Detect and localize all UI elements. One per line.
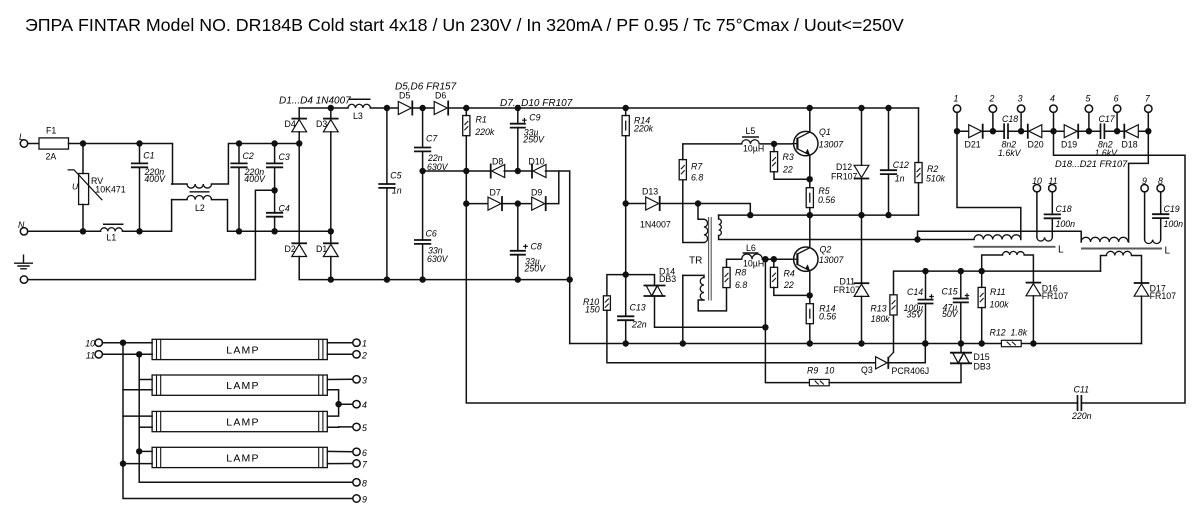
node D13 left bbox=[623, 200, 629, 206]
svg-text:1n: 1n bbox=[895, 174, 905, 184]
wire bus B bbox=[139, 354, 353, 482]
svg-text:3: 3 bbox=[1018, 94, 1023, 104]
svg-text:9: 9 bbox=[1142, 176, 1147, 186]
wire C9 bbox=[517, 108, 519, 124]
diode D11 bbox=[854, 283, 870, 296]
svg-text:510k: 510k bbox=[926, 173, 946, 183]
svg-text:8: 8 bbox=[1158, 176, 1163, 186]
wire terminal 3 bbox=[1020, 112, 1022, 131]
terminal 11 lamp side bbox=[95, 351, 102, 358]
svg-text:150: 150 bbox=[585, 305, 600, 315]
node C12-midpoint bbox=[885, 212, 891, 218]
wire lamp3 to t4 bbox=[327, 404, 338, 416]
wire TR lower winding to rail bbox=[682, 275, 684, 343]
svg-text:D4: D4 bbox=[285, 119, 296, 129]
wire bus B lamp3 bbox=[139, 426, 152, 428]
wire D3 string bbox=[330, 108, 332, 119]
capacitor C5 bbox=[378, 184, 395, 188]
diac D14 bbox=[644, 286, 666, 297]
svg-text:R13: R13 bbox=[870, 303, 886, 313]
node C7-C6 / D8 row left bbox=[419, 168, 425, 174]
diode D12 bbox=[854, 165, 870, 178]
node R3-emitter bbox=[807, 176, 813, 182]
wire lamp2 to t4 bbox=[327, 390, 338, 405]
wire R1 string bbox=[465, 108, 467, 116]
diode D17 bbox=[1134, 283, 1150, 296]
svg-text:220k: 220k bbox=[633, 123, 654, 133]
wire D14 bottom to gate line bbox=[655, 296, 766, 327]
diode D4 bbox=[291, 119, 307, 132]
svg-text:C6: C6 bbox=[426, 228, 437, 238]
inductor L1 bbox=[101, 228, 123, 232]
svg-text:6.8: 6.8 bbox=[735, 280, 747, 290]
wire bus B lamp4 bbox=[139, 450, 152, 452]
wire C3 bbox=[274, 144, 276, 164]
node terminal 2 bbox=[990, 128, 996, 134]
wire D17 bottom bbox=[1141, 296, 1143, 343]
node C3 top bbox=[271, 140, 277, 146]
node t10 branch bbox=[120, 340, 126, 346]
wire D12 bbox=[861, 108, 863, 165]
wire D14 top bbox=[626, 275, 655, 286]
wire R10 bottom to Q3 line bbox=[607, 310, 876, 363]
svg-text:D15: D15 bbox=[974, 352, 990, 362]
resistor R9 bbox=[809, 379, 829, 385]
svg-text:TR: TR bbox=[689, 256, 702, 267]
capacitor C1 bbox=[131, 163, 148, 167]
wire D4 to D2 bbox=[298, 144, 300, 244]
svg-text:C8: C8 bbox=[531, 242, 542, 252]
transformer TR lower winding bbox=[683, 275, 704, 277]
node R1-D8row bbox=[463, 168, 469, 174]
wire bus A lamp3 bbox=[123, 415, 152, 417]
inductor L6 bbox=[742, 254, 763, 259]
terminal 2 bbox=[989, 105, 996, 112]
node Q3 cathode-rail bbox=[922, 340, 928, 346]
terminal 7 lamp side bbox=[353, 460, 360, 467]
wire bus B lamp2 bbox=[139, 379, 152, 381]
svg-text:630V: 630V bbox=[427, 254, 449, 264]
wire bus A bbox=[123, 343, 353, 499]
svg-text:C9: C9 bbox=[529, 112, 540, 122]
transformer TR core bbox=[709, 217, 712, 301]
svg-text:3: 3 bbox=[362, 375, 367, 385]
resistor R4 bbox=[770, 267, 777, 287]
svg-text:0.56: 0.56 bbox=[819, 311, 836, 321]
capacitor C2 bbox=[230, 163, 247, 167]
wire R9 feed vertical bbox=[765, 259, 809, 382]
node N-RV bbox=[80, 228, 86, 234]
node terminal 6 bbox=[1114, 128, 1120, 134]
wire rail D5-D6 bbox=[413, 107, 435, 109]
wire C4 bbox=[274, 190, 276, 213]
svg-text:DB3: DB3 bbox=[974, 362, 991, 372]
diode D7 bbox=[488, 196, 502, 211]
svg-text:D19: D19 bbox=[1061, 140, 1077, 150]
node N-C1 bbox=[136, 228, 142, 234]
svg-text:U: U bbox=[72, 182, 79, 192]
wire lamp1 to t1 bbox=[327, 342, 353, 344]
svg-text:6.8: 6.8 bbox=[691, 173, 703, 183]
node R1-D7row bbox=[463, 200, 469, 206]
wire L input bbox=[28, 143, 39, 145]
svg-text:D18: D18 bbox=[1122, 140, 1138, 150]
node D3 top bbox=[328, 105, 334, 111]
svg-text:R1: R1 bbox=[476, 115, 487, 125]
node C2 bottom bbox=[236, 228, 242, 234]
wire D11 bbox=[861, 215, 863, 283]
ground symbol bbox=[14, 255, 33, 269]
node t4 junction bbox=[335, 401, 341, 407]
svg-text:10: 10 bbox=[85, 339, 95, 349]
svg-text:L: L bbox=[1058, 245, 1064, 256]
svg-text:D9: D9 bbox=[531, 188, 542, 198]
capacitor C12 bbox=[880, 170, 897, 174]
diode D18 bbox=[1124, 124, 1138, 139]
node Q2 base-R4 bbox=[771, 256, 777, 262]
svg-text:N: N bbox=[18, 220, 25, 230]
svg-text:250V: 250V bbox=[524, 264, 547, 274]
terminal 5 lamp side bbox=[353, 423, 360, 430]
svg-text:LAMP: LAMP bbox=[226, 380, 259, 392]
svg-text:D2: D2 bbox=[285, 244, 296, 254]
wire D9 right riser bbox=[546, 171, 559, 204]
svg-text:11: 11 bbox=[1048, 176, 1057, 186]
svg-text:D18...D21 FR107: D18...D21 FR107 bbox=[1055, 159, 1128, 169]
lamp 2 bbox=[152, 375, 327, 395]
svg-text:22: 22 bbox=[783, 280, 794, 290]
svg-text:LAMP: LAMP bbox=[226, 453, 259, 465]
svg-text:13007: 13007 bbox=[819, 139, 845, 149]
diac D15 bbox=[950, 353, 972, 364]
node D13-midpoint bbox=[747, 212, 753, 218]
svg-text:L1: L1 bbox=[107, 233, 117, 243]
diode D10 bbox=[532, 164, 546, 179]
node C3-C4 midpoint bbox=[271, 187, 277, 193]
fuse F1 bbox=[39, 138, 69, 149]
wire D4 string bbox=[298, 108, 300, 119]
svg-text:C4: C4 bbox=[279, 204, 290, 214]
wire C15 bbox=[960, 271, 962, 298]
svg-text:C5: C5 bbox=[390, 170, 401, 180]
node TR-rail bbox=[680, 340, 686, 346]
node D3-AC2 bbox=[328, 228, 334, 234]
svg-text:2: 2 bbox=[361, 350, 367, 360]
node R12-D16 bbox=[1030, 340, 1036, 346]
heater winding right bbox=[1101, 256, 1107, 272]
capacitor C13 bbox=[617, 316, 634, 320]
wire R13 top to DC node bbox=[894, 271, 1101, 295]
svg-text:ЭПРА FINTAR Model NO. DR184B C: ЭПРА FINTAR Model NO. DR184B Cold start … bbox=[25, 15, 904, 35]
wire C11 loop from D7 row bbox=[466, 204, 1077, 403]
terminal 3 bbox=[1017, 105, 1024, 112]
wire lamp2 to t3 bbox=[327, 378, 353, 380]
diode D5 bbox=[398, 101, 412, 116]
capacitor C8 bbox=[510, 251, 526, 255]
node R11-rail bbox=[979, 340, 985, 346]
svg-text:LAMP: LAMP bbox=[226, 417, 259, 429]
svg-text:C18: C18 bbox=[1056, 204, 1072, 214]
svg-text:C14: C14 bbox=[907, 287, 923, 297]
wire L6 left to R8 bbox=[727, 259, 742, 267]
svg-text:250V: 250V bbox=[522, 134, 545, 144]
svg-text:D7: D7 bbox=[490, 188, 501, 198]
node D4-AC1 bbox=[296, 140, 302, 146]
svg-text:D7...D10 FR107: D7...D10 FR107 bbox=[500, 98, 573, 109]
svg-text:1.8k: 1.8k bbox=[1011, 327, 1028, 337]
wire R7 top / L5 line bbox=[683, 144, 742, 160]
svg-text:10: 10 bbox=[825, 366, 835, 376]
node terminal 7 bbox=[1145, 128, 1151, 134]
terminal 4 lamp side bbox=[353, 401, 360, 408]
svg-text:6: 6 bbox=[1114, 94, 1119, 104]
resistor R7 bbox=[679, 160, 686, 180]
svg-text:6: 6 bbox=[362, 448, 367, 458]
choke B core bbox=[1081, 248, 1162, 250]
svg-text:C2: C2 bbox=[243, 151, 254, 161]
wire D10 right down to DC- bbox=[546, 171, 570, 344]
wire terminal 7 to choke B bbox=[1129, 131, 1149, 242]
node C12 top bbox=[885, 105, 891, 111]
svg-text:220n: 220n bbox=[1071, 411, 1092, 421]
wire D15 top bbox=[960, 344, 962, 353]
diode D9 bbox=[532, 196, 546, 211]
svg-text:C1: C1 bbox=[143, 151, 154, 161]
node C5 top bbox=[384, 105, 390, 111]
node C8 top bbox=[515, 200, 521, 206]
diode D16 bbox=[1026, 283, 1042, 296]
wire C8 bbox=[517, 204, 519, 251]
diode D19 bbox=[1064, 124, 1078, 139]
diode D20 bbox=[1028, 124, 1042, 139]
svg-text:400V: 400V bbox=[244, 174, 266, 184]
diode D3 bbox=[323, 119, 339, 132]
wire lamp3 to t5 bbox=[327, 426, 353, 428]
node bus B lamp4 bbox=[136, 448, 142, 454]
wire lamp4 to t7 bbox=[327, 463, 353, 465]
wire C14 bbox=[925, 271, 927, 300]
transformer TR primary winding bbox=[698, 204, 704, 220]
wire lamp1 to t2 bbox=[327, 353, 353, 355]
node R5-midpoint bbox=[807, 212, 813, 218]
svg-text:D21: D21 bbox=[965, 140, 981, 150]
wire resonant riser bbox=[918, 231, 1082, 242]
wire L2 bottom right bbox=[212, 200, 331, 232]
wire C6 bottom bbox=[422, 244, 424, 280]
svg-text:D3: D3 bbox=[316, 119, 327, 129]
svg-text:9: 9 bbox=[362, 495, 367, 505]
node L-C1 bbox=[136, 140, 142, 146]
choke A core bbox=[974, 246, 1056, 248]
top rail bbox=[299, 107, 348, 109]
resistor R11 bbox=[978, 287, 985, 307]
choke A heater winding bbox=[1036, 192, 1038, 237]
node R4-emitter bbox=[807, 292, 813, 298]
terminal 9 lamp side bbox=[353, 495, 360, 502]
node D11-rail bbox=[858, 340, 864, 346]
wire C1 top bbox=[139, 144, 141, 164]
thyristor Q3 bbox=[876, 352, 894, 369]
capacitor C6 bbox=[414, 240, 431, 244]
wire terminal 7 bbox=[1147, 112, 1149, 131]
wire R5 bottom bbox=[809, 208, 811, 216]
terminal 8 lamp side bbox=[353, 479, 360, 486]
diode D1 bbox=[323, 243, 339, 256]
svg-text:FR107: FR107 bbox=[831, 172, 858, 182]
svg-text:Q3: Q3 bbox=[861, 365, 873, 375]
svg-text:100k: 100k bbox=[990, 300, 1010, 310]
node terminal 5 bbox=[1086, 128, 1092, 134]
wire D8-C9 node bbox=[504, 170, 532, 172]
wire terminal 5 bbox=[1088, 112, 1090, 131]
midpoint rail bbox=[719, 214, 919, 216]
wire terminal 1 to resonant node bbox=[957, 131, 1021, 239]
wire R10 top bbox=[607, 275, 626, 296]
wire lamp4 to t6 bbox=[327, 450, 353, 452]
choke B winding bbox=[1081, 237, 1128, 242]
terminal 5 bbox=[1085, 105, 1092, 112]
svg-text:R11: R11 bbox=[990, 287, 1006, 297]
wire RV bottom bbox=[82, 205, 84, 232]
inductor L5 bbox=[742, 140, 760, 144]
terminal 10 top bbox=[1033, 185, 1040, 192]
node terminal 3 bbox=[1018, 128, 1024, 134]
terminal 6 lamp side bbox=[353, 448, 360, 455]
resistor R8 bbox=[723, 267, 730, 287]
node C5-DC- bbox=[384, 276, 390, 282]
wire L5 to Q1 base bbox=[759, 143, 792, 145]
terminal N bbox=[20, 228, 27, 235]
svg-text:L6: L6 bbox=[746, 243, 756, 253]
diode D21 bbox=[969, 124, 983, 139]
svg-text:R3: R3 bbox=[783, 152, 794, 162]
svg-text:100n: 100n bbox=[1164, 219, 1184, 229]
wire Q3 cathode to rail bbox=[888, 344, 925, 363]
terminal L bbox=[20, 140, 27, 147]
wire terminal 1 bbox=[956, 112, 958, 131]
wire C1 bottom bbox=[139, 167, 141, 231]
diode D2 bbox=[291, 243, 307, 256]
svg-text:1N4007: 1N4007 bbox=[640, 219, 671, 229]
svg-text:DB3: DB3 bbox=[659, 274, 676, 284]
wire t11 to lamp1 bbox=[102, 353, 152, 355]
svg-text:C15: C15 bbox=[942, 287, 958, 297]
node R14-rail bbox=[807, 340, 813, 346]
node D10line-DC- bbox=[567, 276, 573, 282]
diode D8 bbox=[491, 164, 505, 179]
svg-text:100n: 100n bbox=[1056, 219, 1076, 229]
wire R9 to D15 bbox=[829, 363, 961, 382]
capacitor C18 output bbox=[1044, 214, 1061, 218]
node R11 top bbox=[979, 268, 985, 274]
wire D13 line bbox=[626, 203, 646, 205]
node terminal 1 bbox=[954, 128, 960, 134]
svg-text:1.6kV: 1.6kV bbox=[998, 148, 1022, 158]
wire bus A lamp4 bbox=[123, 463, 152, 465]
svg-text:22n: 22n bbox=[631, 320, 647, 330]
choke A winding bbox=[918, 239, 975, 241]
capacitor C18 series bbox=[1004, 123, 1008, 139]
wire terminal 2 bbox=[992, 112, 994, 131]
varistor RV bbox=[68, 170, 103, 205]
wire D7-D9 bbox=[503, 203, 532, 205]
wire PE to C3-C4 midpoint bbox=[28, 190, 275, 279]
svg-text:4: 4 bbox=[362, 400, 367, 410]
svg-text:2: 2 bbox=[988, 94, 994, 104]
svg-text:10µH: 10µH bbox=[743, 143, 764, 153]
svg-text:13007: 13007 bbox=[819, 255, 845, 265]
wire D8 row bbox=[423, 170, 491, 172]
terminal 1 lamp side bbox=[353, 339, 360, 346]
svg-text:1n: 1n bbox=[392, 185, 402, 195]
lamp 4 bbox=[152, 447, 327, 467]
svg-text:L2: L2 bbox=[195, 203, 205, 213]
wire R2 bbox=[918, 108, 920, 163]
svg-text:L5: L5 bbox=[746, 126, 756, 136]
wire rail D6 right bbox=[449, 107, 919, 109]
node R1 top bbox=[463, 105, 469, 111]
svg-text:0.56: 0.56 bbox=[818, 195, 835, 205]
svg-text:D10: D10 bbox=[529, 157, 545, 167]
terminal PE bbox=[20, 276, 27, 283]
svg-text:FR107: FR107 bbox=[1042, 291, 1069, 301]
wire t4 junction bbox=[339, 403, 353, 405]
wire rail L3-D5 bbox=[370, 107, 398, 109]
resistor R2 bbox=[915, 163, 922, 183]
heater winding left bbox=[982, 255, 1003, 271]
svg-text:C3: C3 bbox=[279, 152, 290, 162]
resistor R14 bbox=[622, 116, 629, 136]
svg-text:R9: R9 bbox=[807, 366, 818, 376]
node C13-rail bbox=[623, 340, 629, 346]
svg-text:L: L bbox=[1165, 246, 1171, 257]
transistor Q1 bbox=[792, 131, 818, 155]
wire R4 bbox=[773, 259, 775, 267]
node C6-DC- bbox=[419, 276, 425, 282]
svg-text:C12: C12 bbox=[893, 160, 909, 170]
svg-text:2A: 2A bbox=[46, 152, 57, 162]
wire terminal 6 bbox=[1116, 112, 1118, 131]
node Q1 collector bbox=[807, 105, 813, 111]
svg-text:C17: C17 bbox=[1099, 114, 1116, 124]
terminal 9 top bbox=[1141, 185, 1148, 192]
node D12 top bbox=[858, 105, 864, 111]
svg-text:R4: R4 bbox=[784, 269, 795, 279]
svg-text:C18: C18 bbox=[1002, 114, 1018, 124]
node bus A lamp4 bbox=[120, 460, 126, 466]
wire C5 bbox=[386, 108, 388, 184]
node C7 top bbox=[419, 105, 425, 111]
wire C7 bbox=[422, 108, 424, 148]
terminal 11 top bbox=[1049, 185, 1056, 192]
svg-text:C7: C7 bbox=[426, 133, 438, 143]
wire R14 string bbox=[625, 108, 627, 116]
wire N line to choke bbox=[123, 200, 172, 232]
wire C18 output bbox=[1051, 192, 1053, 215]
output bus bbox=[957, 130, 1004, 132]
terminal 6 bbox=[1113, 105, 1120, 112]
svg-text:C19: C19 bbox=[1164, 204, 1180, 214]
svg-text:LAMP: LAMP bbox=[226, 345, 259, 357]
wire terminal 4 to C11 bbox=[1054, 131, 1186, 403]
wire Q2 collector bbox=[809, 215, 811, 247]
node C14-rail bbox=[922, 340, 928, 346]
svg-text:11: 11 bbox=[86, 350, 95, 360]
wire Q1 collector bbox=[809, 108, 811, 132]
capacitor C7 bbox=[414, 148, 431, 152]
svg-text:5: 5 bbox=[1085, 94, 1090, 104]
svg-text:D6: D6 bbox=[435, 91, 446, 101]
